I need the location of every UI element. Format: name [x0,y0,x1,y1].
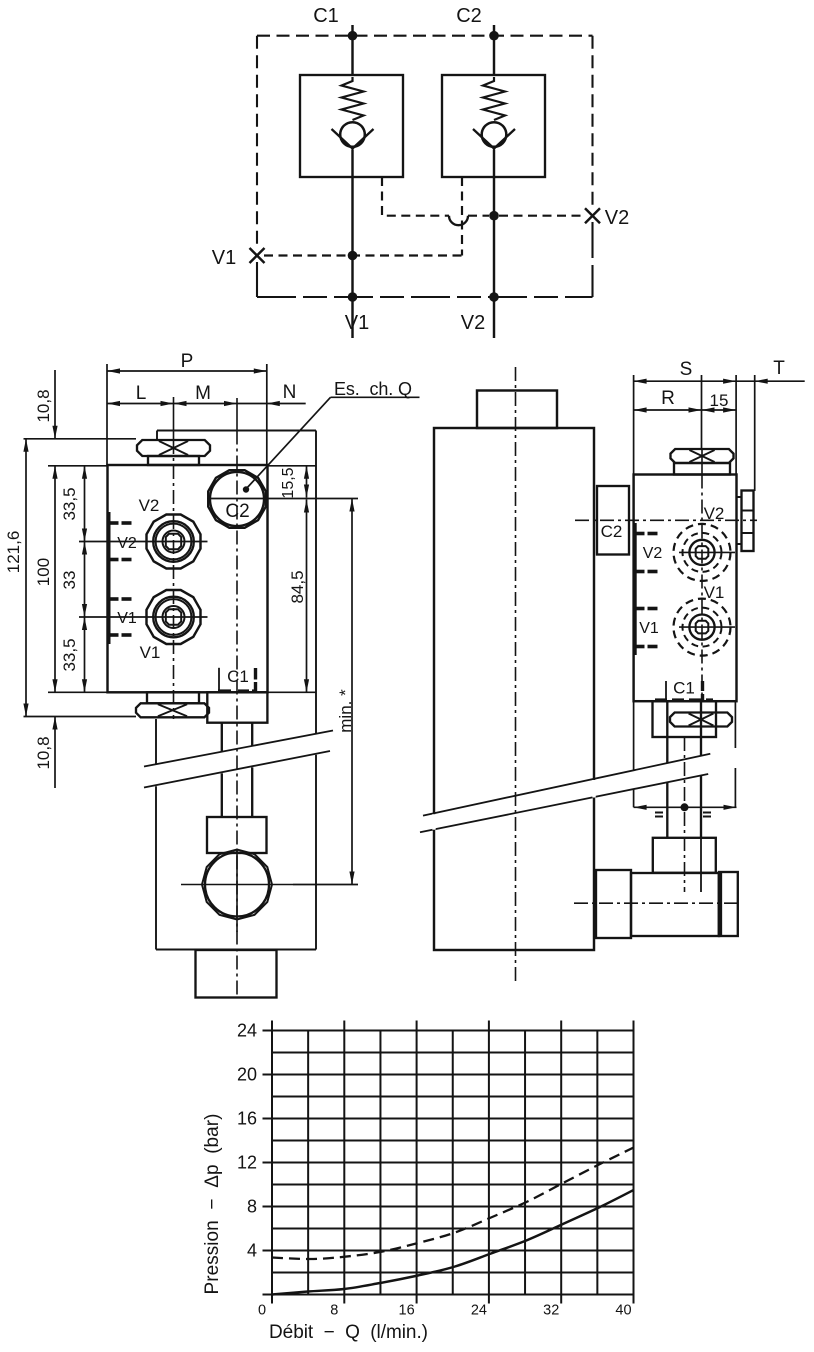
svg-text:L: L [136,383,147,404]
svg-text:T: T [773,358,785,379]
svg-text:M: M [195,383,211,404]
svg-text:33: 33 [60,571,79,590]
svg-text:C2: C2 [456,5,482,27]
svg-text:V1: V1 [212,247,236,269]
svg-text:33,5: 33,5 [60,487,79,520]
svg-text:V1: V1 [639,620,659,637]
svg-text:V2: V2 [704,504,725,523]
svg-text:R: R [661,388,675,409]
svg-text:121,6: 121,6 [4,531,23,574]
svg-text:V1: V1 [140,643,161,662]
svg-text:C1: C1 [313,5,339,27]
svg-text:100: 100 [34,558,53,586]
svg-text:V2: V2 [139,496,160,515]
svg-text:20: 20 [237,1065,257,1085]
svg-text:min. *: min. * [336,689,355,733]
svg-text:24: 24 [471,1303,487,1319]
svg-text:C2: C2 [601,522,623,541]
svg-text:10,8: 10,8 [34,736,53,769]
svg-text:15,5: 15,5 [280,467,297,498]
svg-text:16: 16 [399,1303,415,1319]
svg-text:24: 24 [237,1021,257,1041]
svg-text:Débit − Q (l/min.): Débit − Q (l/min.) [269,1322,428,1343]
svg-text:Es. ch. Q: Es. ch. Q [334,379,412,399]
svg-text:V1: V1 [345,312,369,334]
svg-text:32: 32 [543,1303,559,1319]
svg-text:Pression − Δp (bar): Pression − Δp (bar) [202,1114,223,1295]
svg-text:84,5: 84,5 [288,570,307,603]
svg-text:C1: C1 [227,667,249,686]
svg-text:40: 40 [615,1303,631,1319]
svg-text:15: 15 [710,391,729,410]
svg-text:S: S [680,359,693,380]
svg-text:V2: V2 [117,535,137,552]
svg-text:C1: C1 [673,679,695,698]
svg-text:V2: V2 [461,312,485,334]
svg-text:12: 12 [237,1153,257,1173]
svg-text:V2: V2 [643,545,663,562]
svg-text:P: P [181,351,194,372]
svg-text:8: 8 [330,1303,338,1319]
svg-text:8: 8 [247,1197,257,1217]
svg-text:V1: V1 [704,583,725,602]
svg-text:33,5: 33,5 [60,638,79,671]
svg-text:V1: V1 [117,610,137,627]
svg-text:16: 16 [237,1109,257,1129]
svg-text:N: N [283,382,297,403]
svg-text:0: 0 [258,1303,266,1319]
svg-text:V2: V2 [605,207,629,229]
svg-text:10,8: 10,8 [34,389,53,422]
svg-text:4: 4 [247,1241,257,1261]
